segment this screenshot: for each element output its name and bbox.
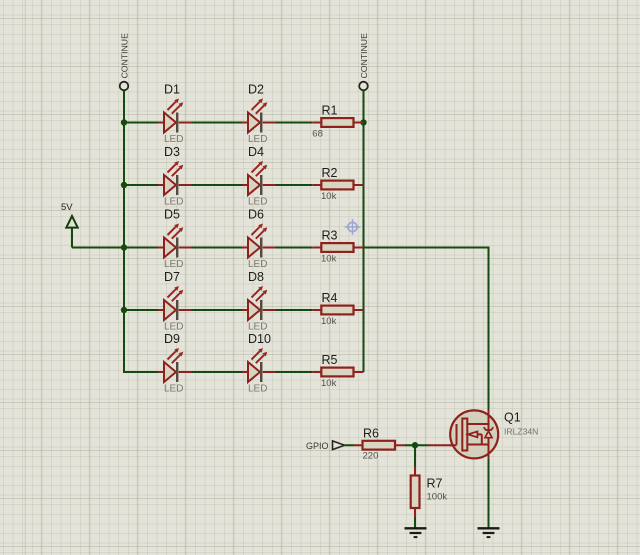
terminal GPIO — [306, 441, 345, 451]
resistor R7 — [411, 467, 448, 518]
node right row1 — [360, 119, 366, 125]
svg-text:CONTINUE: CONTINUE — [120, 33, 130, 79]
svg-text:D5: D5 — [164, 208, 180, 222]
resistor R4 — [312, 291, 363, 327]
gate bar — [456, 424, 458, 445]
svg-text:R5: R5 — [322, 353, 338, 367]
resistor R6 — [354, 427, 405, 462]
svg-text:D1: D1 — [164, 83, 180, 97]
svg-text:D3: D3 — [164, 145, 180, 159]
resistor R3 — [312, 229, 363, 265]
node left row1 — [121, 119, 127, 125]
source line — [467, 445, 488, 459]
wire left bus — [124, 91, 158, 373]
svg-text:GPIO: GPIO — [306, 441, 329, 451]
svg-text:LED: LED — [248, 197, 267, 208]
gate lead inside — [450, 444, 456, 446]
svg-text:LED: LED — [164, 259, 183, 270]
body diode — [485, 431, 492, 438]
wire — [192, 122, 243, 124]
svg-text:Q1: Q1 — [504, 411, 521, 425]
svg-text:LED: LED — [164, 134, 183, 145]
svg-text:R6: R6 — [363, 427, 379, 441]
svg-text:R1: R1 — [322, 104, 338, 118]
wire junction down to R7 — [414, 445, 416, 466]
wire — [276, 247, 313, 249]
svg-text:LED: LED — [248, 259, 267, 270]
wire — [192, 247, 243, 249]
wire row3 to Q1 drain — [364, 248, 489, 411]
LED D2 — [242, 83, 276, 146]
node left row2 — [121, 182, 127, 188]
svg-text:R3: R3 — [322, 229, 338, 243]
svg-text:10k: 10k — [321, 378, 337, 389]
wire — [276, 309, 313, 311]
LED D10 — [242, 332, 276, 395]
wire R7 to ground — [414, 518, 416, 529]
svg-text:D2: D2 — [248, 83, 264, 97]
resistor R2 — [312, 166, 363, 202]
terminal CONTINUE (right) — [359, 33, 369, 90]
wire — [124, 184, 158, 186]
LED D6 — [242, 208, 276, 271]
svg-text:LED: LED — [248, 322, 267, 333]
wire — [124, 122, 158, 124]
wire — [124, 309, 158, 311]
wire Q1 source to ground — [488, 458, 490, 528]
node left row4 — [121, 307, 127, 313]
resistor R5 — [312, 353, 363, 389]
svg-text:D10: D10 — [248, 332, 271, 346]
wire — [192, 371, 243, 373]
svg-text:R2: R2 — [322, 166, 338, 180]
svg-text:D4: D4 — [248, 145, 264, 159]
svg-text:D9: D9 — [164, 332, 180, 346]
wire — [276, 122, 313, 124]
body arrow — [477, 434, 482, 444]
svg-text:68: 68 — [312, 129, 323, 140]
LED D9 — [158, 332, 192, 395]
svg-text:10k: 10k — [321, 191, 337, 202]
svg-text:LED: LED — [248, 134, 267, 145]
node left row3 — [121, 244, 127, 250]
svg-text:R4: R4 — [322, 291, 338, 305]
LED D5 — [158, 208, 192, 271]
wire GPIO to R6 — [345, 444, 354, 446]
svg-text:220: 220 — [363, 451, 379, 462]
ground (under Q1) — [478, 528, 500, 537]
wire — [192, 184, 243, 186]
svg-text:5V: 5V — [61, 202, 73, 213]
LED D7 — [158, 270, 192, 333]
resistor R1 — [312, 104, 363, 140]
drain line — [467, 410, 488, 425]
svg-text:R7: R7 — [427, 477, 443, 491]
svg-text:D7: D7 — [164, 270, 180, 284]
terminal CONTINUE (left) — [120, 33, 130, 90]
wire 5V feed — [72, 247, 124, 249]
LED D3 — [158, 145, 192, 208]
LED D1 — [158, 83, 192, 146]
wire R6 to junction and gate — [405, 444, 429, 446]
channel bar — [462, 419, 467, 451]
svg-text:10k: 10k — [321, 254, 337, 265]
power 5V — [61, 202, 78, 248]
svg-text:10k: 10k — [321, 316, 337, 327]
svg-text:LED: LED — [164, 384, 183, 395]
node gate junction — [412, 442, 418, 448]
svg-text:LED: LED — [164, 322, 183, 333]
wire — [276, 371, 313, 373]
wire — [124, 247, 158, 249]
diode vertical — [488, 424, 490, 445]
svg-text:D6: D6 — [248, 208, 264, 222]
wire gate lead — [429, 444, 457, 446]
wire — [192, 309, 243, 311]
svg-text:LED: LED — [248, 384, 267, 395]
svg-text:100k: 100k — [427, 492, 448, 503]
LED D4 — [242, 145, 276, 208]
svg-text:IRLZ34N: IRLZ34N — [504, 427, 538, 437]
wire right bus — [363, 91, 365, 373]
transistor Q1 — [429, 410, 539, 459]
origin marker — [345, 219, 361, 235]
ground (under R7) — [405, 528, 427, 537]
svg-text:D8: D8 — [248, 270, 264, 284]
svg-text:LED: LED — [164, 197, 183, 208]
wire — [276, 184, 313, 186]
svg-text:CONTINUE: CONTINUE — [359, 33, 369, 79]
LED D8 — [242, 270, 276, 333]
